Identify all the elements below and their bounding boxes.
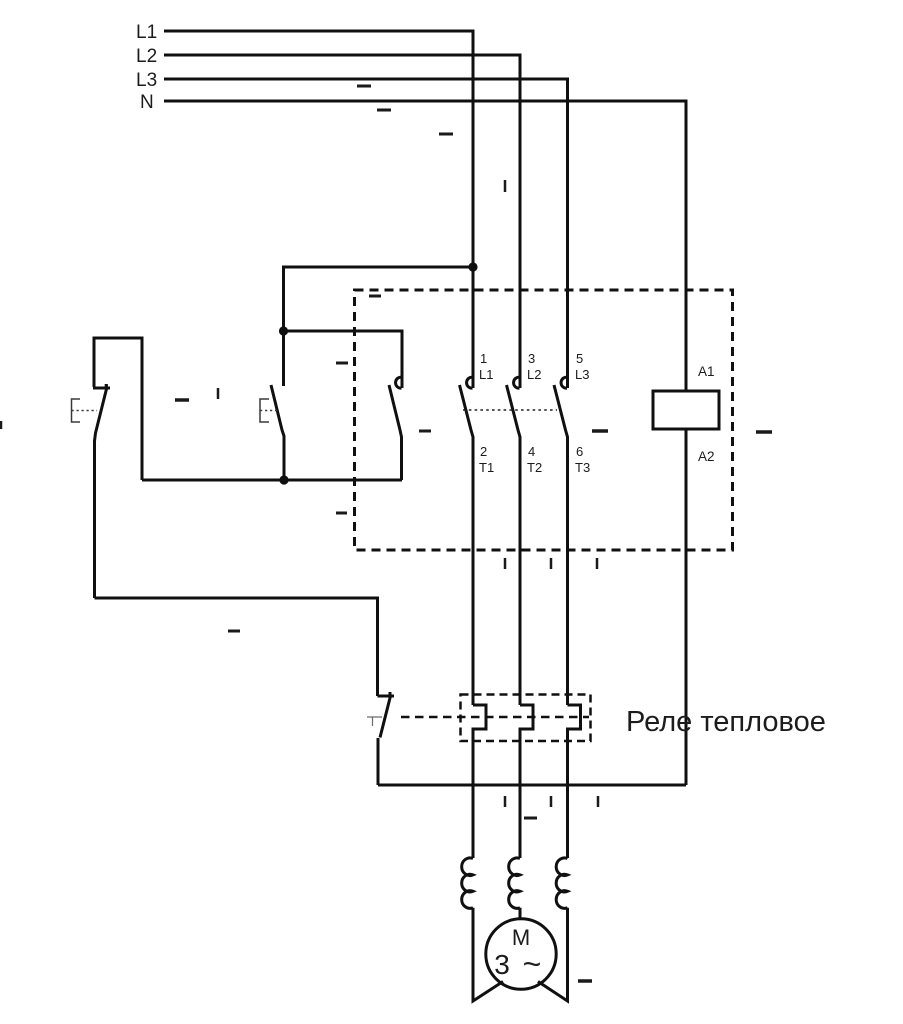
node junction bottom of start/aux (279, 475, 288, 484)
button SB1 stop NC: actuator bracket (72, 399, 81, 422)
svg-text:~: ~ (523, 946, 542, 982)
wire motor lead 1 (473, 908, 503, 1001)
svg-text:T3: T3 (575, 460, 590, 475)
button SB1 stop NC: lever and wire down (95, 389, 107, 599)
svg-text:L2: L2 (527, 367, 541, 382)
contact KM1 main pole 3: terminal hook (561, 377, 567, 388)
contact KM1 main pole 2: lever and wire (507, 385, 521, 705)
svg-text:L3: L3 (575, 367, 589, 382)
svg-text:3: 3 (494, 949, 510, 980)
wire coil A2 down to return rail (685, 429, 688, 785)
inductor winding 3 (556, 858, 567, 908)
contact KM1 main pole 3: lever and wire (554, 385, 568, 705)
motor M1 circle (486, 919, 556, 989)
heater element 1 (473, 705, 486, 858)
contact KK1 thermal NC: terminal crossbar (378, 695, 395, 698)
svg-text:1: 1 (480, 351, 487, 366)
wire thermal contact down to return rail (377, 738, 380, 785)
svg-text:L1: L1 (136, 22, 157, 43)
inductor winding 1 (462, 858, 473, 908)
stray marks (scan artifacts) (1, 86, 772, 981)
contactor KM1 dashed enclosure (355, 290, 733, 550)
contact KK1 thermal NC: lever (380, 692, 391, 738)
node junction on L1 drop (468, 262, 477, 271)
contact KM1 main pole 1: terminal hook (467, 377, 473, 388)
button SB2 start NO: actuator bracket (260, 399, 269, 422)
button SB2 start NO: top wire (282, 331, 285, 386)
wire control tap from L1 (284, 267, 474, 331)
wire bottom return rail (378, 784, 686, 787)
heater element 2 (520, 705, 533, 858)
button SB1 stop NC: actuator dotted link (72, 410, 98, 412)
button SB1 stop NC: terminal crossbar (93, 387, 110, 390)
svg-text:A1: A1 (698, 364, 715, 379)
button SB2 start NO: actuator dotted link (260, 410, 279, 412)
svg-text:5: 5 (576, 351, 583, 366)
wire motor lead 2 (519, 908, 522, 919)
thermal relay KK1 dashed box (461, 695, 591, 742)
wire staple from bottom rail to stop button (94, 338, 142, 480)
svg-text:6: 6 (576, 444, 583, 459)
svg-text:A2: A2 (698, 449, 715, 464)
contact KM1 main pole 1: lever and wire (460, 385, 474, 705)
wire N rail and drop to coil A1 (164, 101, 686, 391)
svg-text:3: 3 (528, 351, 535, 366)
contact KM1 main pole 2: terminal hook (514, 377, 520, 388)
mechanical link dotted line (463, 409, 557, 411)
svg-text:T2: T2 (527, 460, 542, 475)
heater element 3 (568, 705, 581, 858)
coil KM1 rectangle (653, 391, 719, 429)
svg-text:4: 4 (528, 444, 535, 459)
svg-text:T1: T1 (479, 460, 494, 475)
button SB2 start NO: lever and lower wire (271, 385, 284, 480)
svg-text:L1: L1 (479, 367, 493, 382)
svg-text:L3: L3 (136, 70, 157, 91)
wire stop button to thermal contact (95, 598, 378, 696)
svg-text:2: 2 (480, 444, 487, 459)
contact KK1 thermal NC: reset mark (367, 717, 382, 726)
thermal relay mechanical dashed link (401, 716, 589, 719)
svg-text:N: N (140, 92, 154, 113)
node junction start/aux split (279, 326, 288, 335)
button SB1 stop NC: lever arrow tick (105, 384, 108, 388)
svg-text:L2: L2 (136, 46, 157, 67)
wire L2 phase rail and drop (164, 55, 520, 388)
inductor winding 2 (509, 858, 520, 908)
wire bottom control rail (142, 479, 402, 482)
contact KM1 auxiliary NO: terminal hook (396, 377, 402, 388)
contact KM1 auxiliary NO: lever and lower wire (389, 385, 402, 480)
wire to aux contact top (284, 331, 403, 388)
wire motor lead 3 (538, 908, 568, 1001)
svg-text:Реле тепловое: Реле тепловое (626, 706, 826, 738)
wire L1 phase rail and drop (164, 31, 473, 388)
wire L3 phase rail and drop (164, 79, 568, 388)
